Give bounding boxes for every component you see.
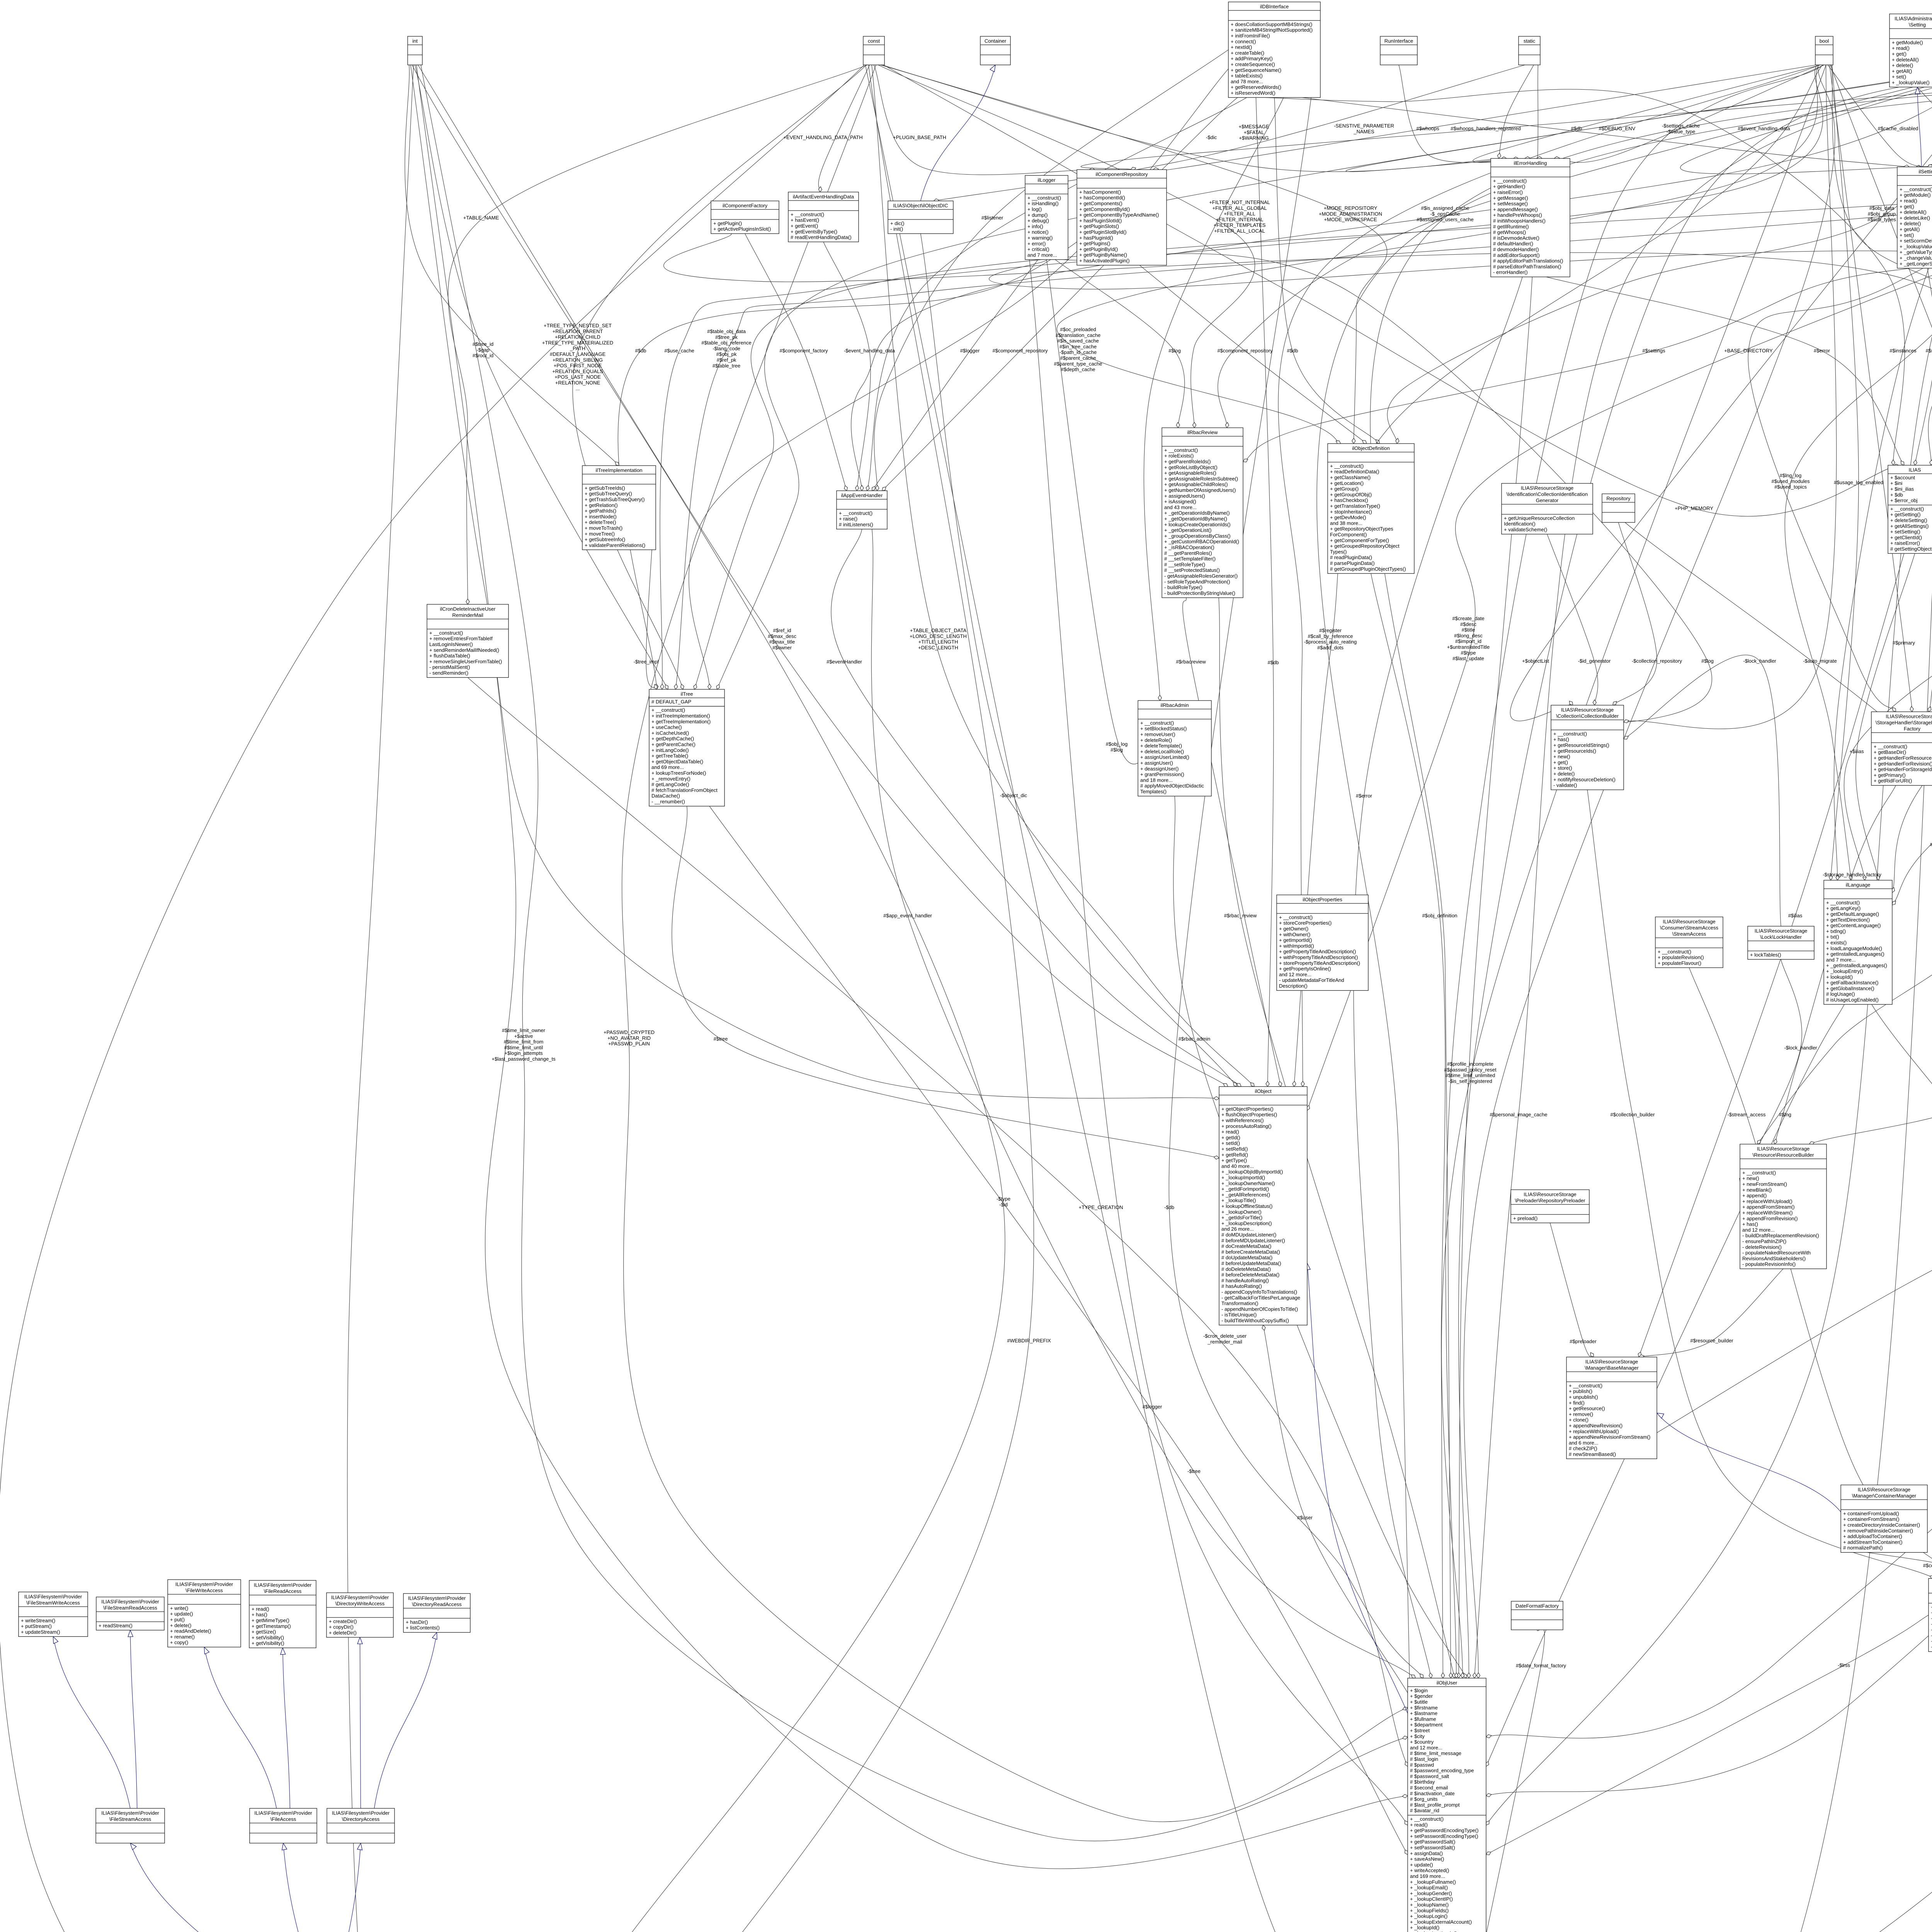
- svg-text:+ getRepositoryObjectTypes: + getRepositoryObjectTypes: [1330, 526, 1393, 532]
- svg-text:#$sub_types: #$sub_types: [1867, 217, 1896, 223]
- svg-text:ilObjUser: ilObjUser: [1437, 1680, 1458, 1685]
- svg-text:- isTitleUnique(): - isTitleUnique(): [1221, 1312, 1257, 1318]
- svg-text:+ createSequence(): + createSequence(): [1231, 61, 1275, 67]
- svg-text:#$component_factory: #$component_factory: [779, 348, 828, 354]
- svg-text:+ storePropertyTitleAndDescrip: + storePropertyTitleAndDescription(): [1279, 960, 1360, 966]
- svg-text:ilRbacReview: ilRbacReview: [1187, 429, 1218, 435]
- svg-text:+ $login: + $login: [1410, 1687, 1428, 1693]
- svg-text:ILIAS\Filesystem\Provider: ILIAS\Filesystem\Provider: [175, 1581, 233, 1587]
- svg-text:#$resource_builder: #$resource_builder: [1690, 1338, 1733, 1344]
- svg-text:+ put(): + put(): [170, 1617, 185, 1622]
- svg-text:#$title: #$title: [1462, 627, 1475, 633]
- svg-text:+ _lookupGender(): + _lookupGender(): [1410, 1890, 1452, 1896]
- svg-text:+ __construct(): + __construct(): [1140, 720, 1174, 726]
- svg-text:- updateMetadataForTitleAnd: - updateMetadataForTitleAnd: [1279, 977, 1344, 983]
- svg-text:+ getObjectProperties(): + getObjectProperties(): [1221, 1106, 1274, 1112]
- svg-text:-$id: -$id: [999, 1202, 1008, 1207]
- svg-text:+ read(): + read(): [1900, 198, 1917, 204]
- svg-text:+ __construct(): + __construct(): [1164, 447, 1198, 453]
- svg-text:+ $fullname: + $fullname: [1410, 1716, 1436, 1722]
- svg-text:+FILTER_ALL_GLOBAL: +FILTER_ALL_GLOBAL: [1212, 205, 1267, 211]
- svg-text:+ hasActivatedPlugin(): + hasActivatedPlugin(): [1079, 258, 1129, 264]
- svg-text:- init(): - init(): [890, 226, 903, 232]
- svg-text:# __setRoleType(): # __setRoleType(): [1164, 561, 1205, 567]
- svg-text:+ __construct(): + __construct(): [1826, 900, 1860, 905]
- svg-text:+ hasEvent(): + hasEvent(): [791, 217, 819, 223]
- svg-text:#$max_desc: #$max_desc: [768, 633, 796, 639]
- svg-text:ILIAS\Filesystem\Provider: ILIAS\Filesystem\Provider: [101, 1810, 159, 1816]
- svg-text:#$preloader: #$preloader: [1570, 1338, 1597, 1344]
- svg-text:ilTree: ilTree: [680, 691, 693, 697]
- svg-text:+ _lookupLogin(): + _lookupLogin(): [1410, 1913, 1447, 1919]
- svg-text:- setRoleTypeAndProtection(): - setRoleTypeAndProtection(): [1164, 579, 1230, 585]
- svg-text:\Identification\CollectionIden: \Identification\CollectionIdentification: [1507, 491, 1588, 497]
- svg-text:+ getTrashSubTreeQuery(): + getTrashSubTreeQuery(): [585, 497, 645, 502]
- svg-text:#WEBDIR_PREFIX: #WEBDIR_PREFIX: [1007, 1338, 1051, 1344]
- svg-text:+ assignData(): + assignData(): [1410, 1850, 1443, 1856]
- svg-text:+ getTreeTable(): + getTreeTable(): [651, 753, 688, 759]
- svg-text:#$depth_cache: #$depth_cache: [1061, 367, 1095, 372]
- svg-text:+ critical(): + critical(): [1027, 247, 1049, 252]
- svg-text:ILIAS\ResourceStorage: ILIAS\ResourceStorage: [1886, 713, 1932, 719]
- svg-text:+ getRefId(): + getRefId(): [1221, 1152, 1248, 1158]
- svg-text:ilTreeImplementation: ilTreeImplementation: [596, 467, 643, 473]
- svg-text:+ lookupOfflineStatus(): + lookupOfflineStatus(): [1221, 1203, 1272, 1209]
- svg-text:+ putStream(): + putStream(): [21, 1623, 52, 1629]
- svg-text:# addEditorSupport(): # addEditorSupport(): [1493, 252, 1540, 258]
- svg-text:+ raiseError(): + raiseError(): [1890, 540, 1920, 546]
- svg-text:+ _getIdForImportId(): + _getIdForImportId(): [1221, 1186, 1269, 1192]
- svg-text:+ getInstalledLanguages(): + getInstalledLanguages(): [1826, 951, 1884, 957]
- svg-text:+ isHandling(): + isHandling(): [1027, 201, 1059, 206]
- svg-text:#$obj_log: #$obj_log: [1106, 741, 1128, 747]
- svg-text:+ _lookupEmail(): + _lookupEmail(): [1410, 1885, 1448, 1891]
- svg-text:Container: Container: [985, 38, 1007, 44]
- svg-text:+ __construct(): + __construct(): [1742, 1170, 1776, 1175]
- svg-text:-$process_auto_reating: -$process_auto_reating: [1304, 639, 1357, 645]
- svg-text:+ get(): + get(): [1553, 759, 1568, 765]
- svg-text:-$type: -$type: [997, 1196, 1010, 1202]
- svg-text:+ getPluginByName(): + getPluginByName(): [1079, 252, 1127, 258]
- svg-text:+ dump(): + dump(): [1027, 212, 1048, 218]
- svg-text:-$cron_delete_user: -$cron_delete_user: [1203, 1333, 1247, 1339]
- svg-text:+ getContentLanguage(): + getContentLanguage(): [1826, 923, 1881, 929]
- svg-text:_reminder_mail: _reminder_mail: [1207, 1339, 1242, 1345]
- svg-text:#$table_obj_data: #$table_obj_data: [707, 328, 746, 334]
- svg-text:\Preloader\RepositoryPreloader: \Preloader\RepositoryPreloader: [1515, 1197, 1585, 1203]
- svg-text:# normalizePath(): # normalizePath(): [1843, 1545, 1883, 1551]
- svg-text:+ _lookupFields(): + _lookupFields(): [1410, 1908, 1449, 1913]
- svg-text:ILIAS\Filesystem\Provider: ILIAS\Filesystem\Provider: [408, 1595, 466, 1601]
- svg-text:-$dic: -$dic: [1206, 134, 1217, 140]
- svg-text:ILIAS\Object\ilObjectDIC: ILIAS\Object\ilObjectDIC: [893, 202, 948, 208]
- svg-text:\StorageHandler\StorageHandler: \StorageHandler\StorageHandler: [1876, 719, 1932, 725]
- svg-text:+ _changeValueType(): + _changeValueType(): [1900, 255, 1932, 261]
- svg-text:+ getEvent(): + getEvent(): [791, 223, 818, 229]
- svg-text:+ write(): + write(): [170, 1605, 188, 1611]
- svg-text:+BASE_DIRECTORY: +BASE_DIRECTORY: [1724, 348, 1773, 354]
- svg-text:+ getModule(): + getModule(): [1900, 192, 1931, 198]
- svg-text:-$lock_handler: -$lock_handler: [1743, 658, 1776, 664]
- svg-text:+ __construct(): + __construct(): [429, 630, 463, 636]
- svg-text:+POS_FIRST_NODE: +POS_FIRST_NODE: [554, 363, 602, 369]
- svg-text:+ $street: + $street: [1410, 1728, 1430, 1733]
- svg-text:+EVENT_HANDLING_DATA_PATH: +EVENT_HANDLING_DATA_PATH: [783, 134, 862, 140]
- svg-text:-$_opsCache: -$_opsCache: [1430, 211, 1460, 217]
- svg-text:-$collection_repository: -$collection_repository: [1632, 658, 1682, 664]
- svg-text:+ readStream(): + readStream(): [99, 1622, 133, 1628]
- svg-text:\FileStreamWriteAccess: \FileStreamWriteAccess: [26, 1600, 80, 1605]
- svg-text:ilCronDeleteInactiveUser: ilCronDeleteInactiveUser: [440, 606, 496, 612]
- svg-text:+NO_AVATAR_RID: +NO_AVATAR_RID: [607, 1035, 651, 1041]
- svg-text:+ addStreamToContainer(): + addStreamToContainer(): [1843, 1539, 1903, 1545]
- svg-text:+ withPropertyTitleAndDescript: + withPropertyTitleAndDescription(): [1279, 954, 1358, 960]
- svg-text:+TABLE_OBJECT_DATA: +TABLE_OBJECT_DATA: [910, 628, 967, 633]
- svg-text:and 6 more...: and 6 more...: [1569, 1440, 1599, 1446]
- svg-text:+ getDefaultLanguage(): + getDefaultLanguage(): [1826, 911, 1879, 917]
- svg-text:# $second_email: # $second_email: [1410, 1785, 1448, 1791]
- svg-text:#$max_title: #$max_title: [769, 639, 795, 645]
- svg-text:+ $firstname: + $firstname: [1410, 1705, 1438, 1711]
- svg-text:+ delete(): + delete(): [1553, 771, 1575, 777]
- svg-text:\Collection\CollectionBuilder: \Collection\CollectionBuilder: [1556, 713, 1619, 719]
- svg-text:+ connect(): + connect(): [1231, 39, 1256, 44]
- svg-text:# $time_limit_message: # $time_limit_message: [1410, 1750, 1461, 1756]
- svg-text:+ getVisibility(): + getVisibility(): [252, 1640, 284, 1646]
- svg-text:+ lockTables(): + lockTables(): [1750, 952, 1781, 957]
- svg-text:+ sanitizeMB4StringIfNotSuppor: + sanitizeMB4StringIfNotSupported(): [1231, 27, 1313, 33]
- svg-text:ilLanguage: ilLanguage: [1846, 882, 1871, 888]
- svg-text:+ getModule(): + getModule(): [1892, 39, 1923, 45]
- svg-text:+ _isRBACOperation(): + _isRBACOperation(): [1164, 544, 1214, 550]
- svg-text:# beforeMDUpdateListener(): # beforeMDUpdateListener(): [1221, 1238, 1285, 1243]
- svg-text:# isUsageLogEnabled(): # isUsageLogEnabled(): [1826, 997, 1879, 1003]
- svg-text:- buildDraftReplacementRevisio: - buildDraftReplacementRevision(): [1742, 1233, 1819, 1238]
- svg-text:+$FATAL: +$FATAL: [1244, 129, 1264, 135]
- svg-text:+ processAutoRating(): + processAutoRating(): [1221, 1123, 1272, 1129]
- svg-text:ilObjectDefinition: ilObjectDefinition: [1352, 445, 1390, 451]
- svg-text:#$error: #$error: [1356, 793, 1372, 799]
- svg-text:# doUpdateMetaData(): # doUpdateMetaData(): [1221, 1255, 1272, 1260]
- svg-text:Identification(): Identification(): [1504, 521, 1536, 527]
- svg-text:#$obj_group: #$obj_group: [1868, 211, 1896, 217]
- svg-text:+ getPathIds(): + getPathIds(): [585, 508, 616, 514]
- svg-text:+ __construct(): + __construct(): [1569, 1383, 1602, 1388]
- svg-text:ilComponentRepository: ilComponentRepository: [1095, 171, 1148, 177]
- svg-text:+ createDir(): + createDir(): [329, 1618, 357, 1624]
- svg-text:+ notififyResourceDeletion(): + notififyResourceDeletion(): [1553, 777, 1616, 782]
- svg-text:+TREE_TYPE_NESTED_SET: +TREE_TYPE_NESTED_SET: [544, 323, 612, 328]
- svg-text:+ getHandlerForResource(): + getHandlerForResource(): [1874, 755, 1932, 761]
- svg-text:Factory: Factory: [1904, 726, 1921, 731]
- svg-text:+ $db: + $db: [1890, 492, 1903, 498]
- svg-text:+ getMessage(): + getMessage(): [1493, 195, 1528, 201]
- svg-text:ILIAS: ILIAS: [1909, 467, 1921, 473]
- svg-text:\Manager\ContainerManager: \Manager\ContainerManager: [1852, 1493, 1917, 1498]
- svg-text:and 38 more...: and 38 more...: [1330, 520, 1362, 526]
- svg-text:ILIAS\Filesystem\Provider: ILIAS\Filesystem\Provider: [101, 1599, 159, 1604]
- svg-text:+ get(): + get(): [1900, 204, 1914, 209]
- svg-text:+ setVisibility(): + setVisibility(): [252, 1634, 284, 1640]
- svg-text:+ getTimestamp(): + getTimestamp(): [252, 1623, 291, 1629]
- svg-text:#$import_id: #$import_id: [1455, 638, 1481, 644]
- svg-text:# handleAutoRating(): # handleAutoRating(): [1221, 1277, 1269, 1283]
- svg-text:+ _lookupObjIdByImportId(): + _lookupObjIdByImportId(): [1221, 1169, 1283, 1175]
- svg-text:# doMDUpdateListener(): # doMDUpdateListener(): [1221, 1232, 1276, 1238]
- svg-text:# __setTemplateFilter(): # __setTemplateFilter(): [1164, 556, 1216, 562]
- svg-text:DateFormatFactory: DateFormatFactory: [1515, 1603, 1559, 1609]
- svg-text:+ __construct(): + __construct(): [651, 707, 685, 713]
- svg-text:+ update(): + update(): [1410, 1862, 1433, 1867]
- svg-text:+ __construct(): + __construct(): [791, 211, 824, 217]
- svg-text:#DEFAULT_LANGUAGE: #DEFAULT_LANGUAGE: [550, 351, 606, 357]
- svg-text:+ store(): + store(): [1553, 765, 1572, 771]
- svg-text:+ getPasswordSalt(): + getPasswordSalt(): [1410, 1839, 1455, 1845]
- svg-text:+ __construct(): + __construct(): [1330, 463, 1364, 469]
- svg-text:# hasAutoRating(): # hasAutoRating(): [1221, 1283, 1262, 1289]
- svg-text:#$db: #$db: [635, 348, 646, 354]
- svg-text:#$obj_pk: #$obj_pk: [716, 351, 737, 357]
- svg-text:#$primary: #$primary: [1893, 640, 1915, 646]
- svg-text:+ getSubtreeInfo(): + getSubtreeInfo(): [585, 537, 625, 543]
- svg-text:# devmodeHandler(): # devmodeHandler(): [1493, 247, 1539, 252]
- svg-text:#$component_repository: #$component_repository: [992, 348, 1048, 354]
- svg-text:+ _getValueType(): + _getValueType(): [1900, 249, 1932, 255]
- svg-text:+ getAssignableRolesInSubtree(: + getAssignableRolesInSubtree(): [1164, 476, 1238, 481]
- svg-text:+ _lookupTitle(): + _lookupTitle(): [1221, 1197, 1256, 1203]
- svg-text:+ getHandlerForRevision(): + getHandlerForRevision(): [1874, 761, 1932, 767]
- svg-text:LastLoginIsNewer(): LastLoginIsNewer(): [429, 641, 473, 647]
- svg-text:+ lookupCreateOperationIds(): + lookupCreateOperationIds(): [1164, 522, 1231, 527]
- svg-text:+TITLE_LENGTH: +TITLE_LENGTH: [918, 639, 958, 645]
- svg-text:+ lookupTreesForNode(): + lookupTreesForNode(): [651, 770, 706, 776]
- svg-text:#$desc: #$desc: [1460, 621, 1476, 627]
- svg-text:+ read(): + read(): [1410, 1822, 1428, 1828]
- svg-text:+ initLangCode(): + initLangCode(): [651, 747, 689, 753]
- svg-text:Description(): Description(): [1279, 983, 1308, 989]
- svg-text:+ getComponentByTypeAndName(): + getComponentByTypeAndName(): [1079, 212, 1159, 218]
- svg-text:\Lock\LockHandler: \Lock\LockHandler: [1760, 934, 1802, 940]
- svg-text:DataCache(): DataCache(): [651, 793, 680, 799]
- svg-text:-$is_self_registered: -$is_self_registered: [1448, 1078, 1492, 1084]
- svg-text:\Setting: \Setting: [1909, 22, 1926, 27]
- svg-text:+ getResourceIds(): + getResourceIds(): [1553, 748, 1596, 754]
- svg-text:#$event_handling_data: #$event_handling_data: [1738, 126, 1790, 131]
- svg-text:+PLUGIN_BASE_PATH: +PLUGIN_BASE_PATH: [893, 134, 946, 140]
- svg-text:ilSetting: ilSetting: [1918, 168, 1932, 174]
- svg-text:\Manager\BaseManager: \Manager\BaseManager: [1585, 1365, 1639, 1371]
- svg-text:#$obj_definition: #$obj_definition: [1422, 913, 1457, 918]
- svg-text:+ isAssigned(): + isAssigned(): [1164, 499, 1196, 505]
- svg-text:Types(): Types(): [1330, 549, 1347, 554]
- svg-text:- deleteRevision(): - deleteRevision(): [1742, 1244, 1782, 1250]
- svg-text:+ deleteTemplate(): + deleteTemplate(): [1140, 743, 1182, 749]
- svg-text:# getIlRuntime(): # getIlRuntime(): [1493, 224, 1529, 230]
- svg-text:# getSettingObject(): # getSettingObject(): [1890, 546, 1932, 552]
- svg-text:+ grantPermission(): + grantPermission(): [1140, 772, 1184, 777]
- svg-text:\FileReadAccess: \FileReadAccess: [264, 1588, 302, 1594]
- svg-text:#$used_modules: #$used_modules: [1771, 478, 1810, 484]
- svg-text:# getWhoops(): # getWhoops(): [1493, 230, 1526, 235]
- svg-text:+RELATION_CHILD: +RELATION_CHILD: [555, 334, 600, 340]
- svg-text:+ hasPluginSlotId(): + hasPluginSlotId(): [1079, 218, 1122, 223]
- svg-text:+ updateStream(): + updateStream(): [21, 1629, 60, 1635]
- svg-text:+ getSize(): + getSize(): [252, 1629, 276, 1635]
- svg-text:ilLogger: ilLogger: [1037, 177, 1056, 183]
- svg-text:#$obj_data: #$obj_data: [1869, 205, 1895, 211]
- svg-text:- persistMailSent(): - persistMailSent(): [429, 664, 470, 670]
- svg-text:+ getPluginSlotById(): + getPluginSlotById(): [1079, 229, 1126, 235]
- svg-text:+ clone(): + clone(): [1569, 1417, 1588, 1423]
- svg-text:+ _getOperationIdByName(): + _getOperationIdByName(): [1164, 516, 1227, 522]
- svg-text:+ setRefId(): + setRefId(): [1221, 1146, 1248, 1152]
- svg-text:_PATH: _PATH: [570, 345, 585, 351]
- svg-text:+ delete(): + delete(): [1900, 221, 1921, 226]
- svg-text:#$component_repository: #$component_repository: [1217, 348, 1273, 354]
- svg-text:-$value_type: -$value_type: [1667, 129, 1695, 134]
- svg-text:+ getPropertyTitleAndDescripti: + getPropertyTitleAndDescription(): [1279, 949, 1356, 954]
- svg-text:+ _getLongerSettings(): + _getLongerSettings(): [1900, 261, 1932, 267]
- svg-text:+ __construct(): + __construct(): [1493, 178, 1527, 184]
- svg-text:ILIAS\ResourceStorage: ILIAS\ResourceStorage: [1663, 918, 1716, 924]
- svg-text:# $org_units: # $org_units: [1410, 1796, 1438, 1802]
- svg-text:ILIAS\ResourceStorage: ILIAS\ResourceStorage: [1524, 1191, 1577, 1197]
- svg-text:+ get(): + get(): [1892, 51, 1906, 57]
- svg-text:+$untranslatedTitle: +$untranslatedTitle: [1447, 644, 1490, 650]
- svg-text:#$rbac_review: #$rbac_review: [1224, 913, 1257, 918]
- svg-text:+ $country: + $country: [1410, 1739, 1434, 1745]
- svg-text:+ insertNode(): + insertNode(): [585, 514, 617, 519]
- svg-text:#$time_limit_unlimited: #$time_limit_unlimited: [1446, 1073, 1495, 1078]
- svg-text:+ deleteLike(): + deleteLike(): [1900, 215, 1930, 221]
- svg-text:# parseEditorPathTranslation(): # parseEditorPathTranslation(): [1493, 264, 1561, 269]
- svg-text:# $birthday: # $birthday: [1410, 1779, 1435, 1785]
- svg-text:+ getLocation(): + getLocation(): [1330, 480, 1364, 486]
- svg-text:+ _lookupLastLogin(): + _lookupLastLogin(): [1410, 1930, 1457, 1932]
- svg-text:\FileStreamReadAccess: \FileStreamReadAccess: [103, 1605, 157, 1611]
- svg-text:-$settings_cache: -$settings_cache: [1662, 123, 1700, 129]
- svg-text:#$translation_cache: #$translation_cache: [1056, 332, 1100, 338]
- svg-text:+TABLE_NAME: +TABLE_NAME: [463, 215, 499, 221]
- svg-text:\FileAccess: \FileAccess: [270, 1816, 296, 1822]
- svg-text:+ deleteDir(): + deleteDir(): [329, 1630, 357, 1636]
- svg-text:+ deleteAll(): + deleteAll(): [1900, 209, 1927, 215]
- svg-text:-$path_id_cache: -$path_id_cache: [1060, 349, 1097, 355]
- svg-text:#$personal_image_cache: #$personal_image_cache: [1490, 1112, 1548, 1117]
- svg-text:+ replaceWithUpload(): + replaceWithUpload(): [1569, 1429, 1619, 1434]
- svg-text:+ txt(): + txt(): [1826, 934, 1839, 940]
- svg-text:+ __construct(): + __construct(): [839, 510, 872, 516]
- svg-text:+PASSWD_CRYPTED: +PASSWD_CRYPTED: [604, 1029, 655, 1035]
- svg-text:#$is_assigned_cache: #$is_assigned_cache: [1421, 205, 1469, 211]
- svg-text:+ moveToTrash(): + moveToTrash(): [585, 525, 622, 531]
- svg-text:\DirectoryWriteAccess: \DirectoryWriteAccess: [335, 1600, 385, 1606]
- svg-text:+ useCache(): + useCache(): [651, 724, 682, 730]
- svg-text:+ __construct(): + __construct(): [1900, 186, 1932, 192]
- svg-text:#$container_manager: #$container_manager: [1923, 1563, 1932, 1568]
- svg-text:+ getParentCache(): + getParentCache(): [651, 742, 696, 747]
- svg-text:- populateRevisionInfo(): - populateRevisionInfo(): [1742, 1261, 1796, 1267]
- svg-text:+ saveAsNew(): + saveAsNew(): [1410, 1856, 1444, 1862]
- svg-text:ilRbacAdmin: ilRbacAdmin: [1161, 702, 1189, 708]
- svg-text:+ appendFromStream(): + appendFromStream(): [1742, 1204, 1794, 1210]
- svg-text:and 43 more...: and 43 more...: [1164, 504, 1197, 510]
- svg-text:#$time_limit_from: #$time_limit_from: [504, 1039, 544, 1045]
- svg-text:+ handlePreWhoops(): + handlePreWhoops(): [1493, 212, 1542, 218]
- svg-text:+ _lookupOwnerName(): + _lookupOwnerName(): [1221, 1180, 1275, 1186]
- svg-text:+$ilias: +$ilias: [1849, 748, 1864, 754]
- svg-text:# initListeners(): # initListeners(): [839, 522, 873, 527]
- svg-text:-$lock_handler: -$lock_handler: [1784, 1045, 1817, 1051]
- svg-text:+ getRelation(): + getRelation(): [585, 502, 618, 508]
- svg-text:# $passwd: # $passwd: [1410, 1762, 1434, 1768]
- svg-text:- buildProtectionByStringValue: - buildProtectionByStringValue(): [1164, 590, 1235, 596]
- svg-text:ilComponentFactory: ilComponentFactory: [723, 202, 768, 208]
- svg-text:# getGroupedPluginObjectTypes(: # getGroupedPluginObjectTypes(): [1330, 566, 1406, 572]
- svg-text:+ assignUser(): + assignUser(): [1140, 760, 1173, 766]
- svg-text:+ publish(): + publish(): [1569, 1388, 1592, 1394]
- svg-text:+ getFallbackInstance(): + getFallbackInstance(): [1826, 980, 1878, 986]
- svg-text:+ getDepthCache(): + getDepthCache(): [651, 736, 694, 742]
- svg-text:+$login_attempts: +$login_attempts: [504, 1050, 543, 1056]
- svg-text:- appendCopyInfoToTranslations: - appendCopyInfoToTranslations(): [1221, 1289, 1297, 1295]
- svg-text:+ _lookupValue(): + _lookupValue(): [1892, 80, 1930, 85]
- svg-text:+ removeUser(): + removeUser(): [1140, 731, 1175, 737]
- svg-text:+ getLangKey(): + getLangKey(): [1826, 905, 1861, 911]
- svg-text:\FileWriteAccess: \FileWriteAccess: [185, 1587, 223, 1593]
- svg-text:+ _lookupId(): + _lookupId(): [1410, 1925, 1439, 1930]
- svg-text:+ _lookupExternalAccount(): + _lookupExternalAccount(): [1410, 1919, 1472, 1925]
- svg-text:+ createTable(): + createTable(): [1231, 50, 1264, 56]
- svg-text:+ hasPluginId(): + hasPluginId(): [1079, 235, 1113, 241]
- svg-text:#$time_limit_owner: #$time_limit_owner: [502, 1027, 546, 1033]
- svg-text:# beforeCreateMetaData(): # beforeCreateMetaData(): [1221, 1249, 1280, 1255]
- svg-text:#$db: #$db: [1287, 348, 1298, 354]
- svg-text:#$use_cache: #$use_cache: [664, 348, 694, 354]
- svg-text:- buildTitleWithoutCopySuffix(: - buildTitleWithoutCopySuffix(): [1221, 1318, 1289, 1323]
- svg-text:#$parent_type_cache: #$parent_type_cache: [1054, 361, 1102, 367]
- svg-text:-$stream_access: -$stream_access: [1728, 1112, 1766, 1117]
- svg-text:#$lng: #$lng: [1779, 1112, 1791, 1117]
- svg-text:+ $city: + $city: [1410, 1733, 1425, 1739]
- svg-text:int: int: [412, 38, 418, 44]
- svg-text:# defaultHandler(): # defaultHandler(): [1493, 241, 1533, 247]
- svg-text:+ getPrimary(): + getPrimary(): [1874, 772, 1906, 778]
- svg-text:+DESC_LENGTH: +DESC_LENGTH: [918, 645, 958, 650]
- svg-text:+ getGroup(): + getGroup(): [1330, 486, 1359, 492]
- svg-text:+ nextId(): + nextId(): [1231, 44, 1252, 50]
- svg-text:#$listener: #$listener: [981, 215, 1003, 221]
- svg-text:+ getAllSettings(): + getAllSettings(): [1890, 523, 1929, 529]
- svg-text:+ getTextDirection(): + getTextDirection(): [1826, 917, 1870, 923]
- svg-text:#$app_event_handler: #$app_event_handler: [883, 913, 932, 918]
- svg-text:+ deleteSetting(): + deleteSetting(): [1890, 517, 1927, 523]
- svg-text:RevisionsAndStakeholders(): RevisionsAndStakeholders(): [1742, 1255, 1806, 1261]
- svg-text:ILIAS\Filesystem\Provider: ILIAS\Filesystem\Provider: [331, 1594, 389, 1600]
- svg-text:+ populateFlavour(): + populateFlavour(): [1658, 960, 1701, 966]
- svg-text:+ getUniqueResourceCollection: + getUniqueResourceCollection: [1504, 515, 1575, 521]
- svg-text:+ getGroupedRepositoryObject: + getGroupedRepositoryObject: [1330, 543, 1400, 549]
- svg-text:#$tree_id: #$tree_id: [473, 341, 493, 347]
- svg-text:+ validateScheme(): + validateScheme(): [1504, 527, 1547, 532]
- svg-text:+ writeAccepted(): + writeAccepted(): [1410, 1867, 1449, 1873]
- svg-text:+ newBlank(): + newBlank(): [1742, 1187, 1772, 1193]
- svg-text:ILIAS\ResourceStorage: ILIAS\ResourceStorage: [1757, 1146, 1810, 1151]
- svg-text:-$lrss: -$lrss: [1838, 1662, 1850, 1668]
- svg-text:+ _getOperationIdsByName(): + _getOperationIdsByName(): [1164, 510, 1230, 516]
- svg-text:+ isReservedWord(): + isReservedWord(): [1231, 90, 1276, 96]
- svg-text:#$long_desc: #$long_desc: [1454, 633, 1483, 638]
